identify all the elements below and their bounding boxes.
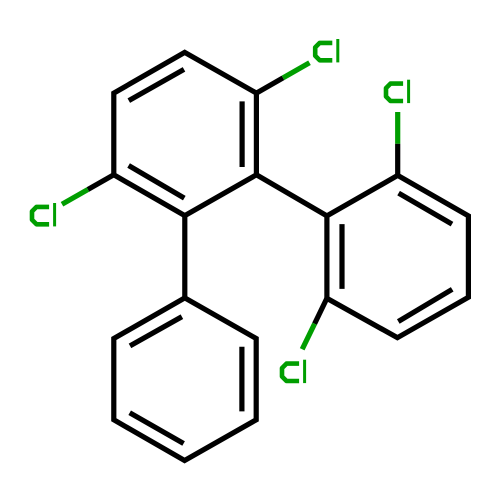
double bond inner line ring C top-left edge [130, 317, 182, 346]
atom label Cl (top) [315, 39, 338, 62]
double bond inner line ring C right edge [239, 347, 244, 412]
C-Cl bond to right Cl, black half [395, 144, 400, 176]
double bond inner line ring B top-right edge [399, 193, 452, 224]
atom label Cl (right) [386, 80, 409, 103]
double bond inner line ring A right edge [240, 101, 245, 167]
C-Cl bond to top Cl, green half [283, 63, 310, 78]
C-Cl bond to left Cl, green half [62, 190, 88, 205]
C-Cl bond to right Cl, green half [395, 112, 400, 144]
C-Cl bond to bottom Cl, black half [315, 298, 327, 324]
atom label Cl (left) [32, 203, 55, 226]
double bond inner line ring A top-left edge [129, 69, 184, 100]
C-Cl bond to bottom Cl, green half [302, 324, 314, 350]
benzene ring B (right ring, 2,6-dichlorophenyl) [327, 175, 469, 337]
biaryl single bond ring A to ring B [256, 175, 327, 216]
atom label Cl (bottom) [282, 360, 305, 383]
benzene ring A (central ring, 3,6-dichloro) [114, 52, 257, 215]
benzene ring C (bottom phenyl ring) [114, 298, 256, 461]
C-Cl bond to top Cl, black half [256, 78, 283, 93]
double bond inner line ring B left edge [339, 224, 344, 289]
double bond inner line ring B bottom-right edge [398, 289, 452, 321]
double bond inner line ring A bottom-left edge [129, 166, 185, 199]
double bond inner line ring C bottom-left edge [130, 413, 184, 444]
biaryl single bond ring A to ring C [182, 216, 187, 298]
C-Cl bond to left Cl, black half [88, 175, 114, 190]
